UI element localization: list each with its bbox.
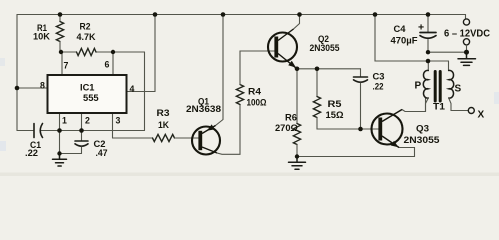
wire C2 bottom lead [81, 147, 83, 154]
transformer T1 secondary winding S [449, 70, 454, 98]
svg-text:470µF: 470µF [391, 36, 418, 47]
capacitor C1 [34, 124, 43, 138]
wire R6 branch down from emitter node [296, 69, 298, 124]
wire C3 top lead [360, 69, 362, 77]
resistor R5 [313, 97, 320, 118]
svg-text:R2: R2 [80, 22, 91, 33]
ground supply minus [458, 52, 476, 65]
ground pin1 [53, 154, 67, 167]
wire pin1 lead to ground [59, 113, 61, 154]
wire pin4 lead [127, 91, 156, 93]
wire ground row under C2 [60, 153, 82, 155]
svg-text:R6: R6 [285, 113, 297, 124]
resistor R4 [236, 85, 243, 105]
svg-text:1: 1 [62, 116, 67, 126]
svg-text:R5: R5 [328, 99, 343, 110]
svg-text:Q3: Q3 [416, 124, 429, 135]
wire primary bottom lead [426, 98, 429, 112]
resistor R6 [293, 124, 300, 145]
svg-text:.47: .47 [96, 148, 108, 159]
svg-text:C4: C4 [394, 24, 407, 35]
wire pin8 to left border [17, 87, 48, 89]
pin numbers [40, 60, 135, 126]
terminal - supply [463, 39, 469, 45]
wire R1 top lead [59, 15, 61, 22]
wire pin6 lead [112, 52, 114, 75]
wire C4 top lead [427, 15, 429, 32]
resistor R2 [77, 48, 97, 55]
wire left border (V+ down to C1) [16, 15, 18, 131]
wire pin3 to R3 [113, 137, 153, 139]
svg-text:X: X [478, 110, 485, 121]
wire primary top lead [427, 61, 429, 71]
wire V+ drop to pin4 [154, 15, 156, 92]
wire Q1 collector to R4 bottom [217, 105, 240, 155]
wire Q2 emitter node row y=68.8 [297, 68, 361, 70]
svg-text:1K: 1K [158, 120, 169, 131]
svg-text:3: 3 [116, 116, 121, 126]
wire C3 bottom lead [360, 83, 362, 129]
svg-text:4: 4 [130, 84, 135, 94]
wire V+ drop to transformer top [375, 15, 449, 62]
capacitor C3 [354, 77, 368, 82]
wire top V+ rail [17, 15, 466, 19]
wire pin3 lead [112, 113, 114, 138]
wire Q3 emitter return line [297, 148, 415, 157]
svg-text:.22: .22 [25, 148, 38, 159]
wire pin2 lead [81, 113, 83, 140]
wire pin7 lead [61, 52, 63, 75]
svg-text:10K: 10K [33, 32, 50, 43]
svg-text:6 – 12VDC: 6 – 12VDC [444, 29, 490, 40]
paper background [0, 0, 499, 176]
wire node row y=52 [60, 51, 145, 53]
capacitor C4 [420, 33, 436, 39]
svg-text:6: 6 [105, 60, 110, 70]
wire secondary top lead [448, 61, 450, 71]
svg-text:P: P [415, 81, 422, 92]
terminal X [468, 108, 474, 114]
transistor Q2 [268, 29, 297, 69]
wire secondary bottom lead to X terminal [449, 98, 469, 111]
svg-text:15Ω: 15Ω [326, 110, 344, 121]
wire Q2 collector riser to V+ rail [294, 15, 300, 30]
svg-text:T1: T1 [433, 102, 446, 113]
svg-text:4.7K: 4.7K [77, 32, 96, 43]
svg-text:7: 7 [64, 61, 69, 71]
transistor Q1 [192, 124, 220, 154]
capacitor C2 [75, 141, 88, 146]
svg-text:+: + [418, 22, 424, 34]
wire C4 bottom to supply minus [428, 51, 467, 53]
resistor R3 [153, 134, 175, 141]
svg-text:S: S [455, 84, 462, 95]
wire R5 bottom lead to Q3 base line [317, 118, 380, 130]
wire R5 top lead [316, 69, 318, 97]
wire R4 top lead and Q2 base line [240, 51, 276, 85]
svg-text:2: 2 [85, 116, 90, 126]
svg-text:.22: .22 [373, 82, 384, 93]
wire minus terminal stem [466, 45, 468, 52]
transistor Q3 [372, 110, 403, 148]
transformer T1 primary winding P [423, 70, 428, 98]
svg-text:2N3055: 2N3055 [310, 43, 341, 54]
wire right drop from R2 node to pin2 net [144, 52, 146, 131]
transformer T1 core [435, 72, 440, 102]
svg-text:R3: R3 [157, 108, 170, 119]
wire net row y=130.5 [17, 130, 145, 132]
wire C4 bottom lead [427, 40, 429, 53]
terminal + supply [463, 19, 469, 25]
wire R1 bottom lead [59, 42, 61, 53]
wire R3 to Q1 base [175, 137, 201, 139]
svg-text:555: 555 [83, 92, 99, 103]
svg-text:270Ω: 270Ω [275, 123, 298, 134]
svg-text:2N3638: 2N3638 [186, 104, 221, 115]
svg-text:8: 8 [40, 81, 45, 91]
op IC1 555 box [48, 75, 127, 113]
svg-text:2N3055: 2N3055 [404, 135, 441, 146]
wire Q3 collector to transformer primary [402, 98, 426, 112]
svg-text:100Ω: 100Ω [247, 98, 267, 109]
wire R6 bottom lead [296, 145, 298, 157]
ground R6 [289, 157, 306, 170]
svg-text:IC1: IC1 [80, 83, 94, 93]
resistor R1 [56, 22, 63, 42]
svg-text:R4: R4 [248, 87, 262, 98]
wire Q1 emitter riser to V+ rail [216, 15, 224, 126]
